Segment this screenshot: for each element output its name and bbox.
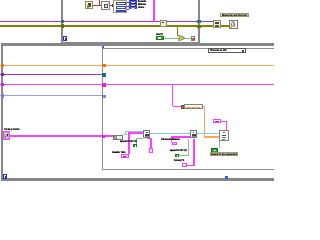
wire magenta vertical (top) — [153, 0, 155, 22]
while loop (outer) border bottom — [1, 178, 274, 181]
wire green boolean 1 — [136, 138, 143, 139]
wire magenta branch down to format box — [172, 85, 174, 106]
label Channel Names — [161, 138, 180, 141]
icon date-time (top chain) — [101, 1, 110, 10]
while loop (outer) border top — [1, 43, 274, 46]
comment label top right — [220, 13, 249, 17]
label Hours — [138, 6, 144, 9]
case selector label — [208, 48, 246, 53]
element name field (orange text) — [184, 104, 203, 109]
tunnel purple outer-left — [1, 73, 4, 76]
junction dot — [112, 4, 114, 6]
tunnel purple top-right — [197, 20, 200, 23]
indicator Hours — [129, 6, 137, 9]
wire purple VISA (top loop) — [0, 21, 214, 22]
wire teal path segments — [123, 134, 127, 135]
wire magenta cluster from control — [10, 135, 114, 137]
label Minutes — [138, 3, 146, 6]
label Antenna — [174, 159, 184, 162]
label append to file 1 — [120, 140, 137, 143]
cluster control Test Set-up Controls — [3, 131, 10, 139]
unbundle by name node — [113, 135, 123, 140]
wire boolean gate to terminal — [184, 38, 191, 39]
tunnel magenta outer-left — [1, 83, 4, 86]
wire olive error (top loop) — [0, 25, 229, 26]
iteration terminal i (outer loop) — [3, 174, 7, 179]
wire magenta channel names — [171, 136, 172, 141]
vi icon C (write to spreadsheet) — [219, 130, 228, 141]
tunnel orange case-left — [102, 64, 106, 67]
while loop (top) border bottom — [61, 42, 200, 44]
wire green boolean 2 — [179, 155, 189, 156]
wire thick magenta header info — [128, 132, 130, 154]
case structure (inner) border left — [102, 48, 103, 170]
icon property node (mid) — [160, 20, 168, 27]
loop conditional terminal — [191, 36, 195, 41]
tunnel purple case-left — [102, 73, 106, 76]
tunnel lavender outer-left — [1, 94, 4, 97]
tunnel lavender case-left — [102, 95, 106, 98]
string constant Header Info — [121, 154, 129, 158]
wire magenta antenna — [187, 165, 195, 166]
wire magenta small const below icon A — [147, 138, 152, 139]
string constant Antenna — [182, 163, 187, 167]
icon VISA open (top chain) — [85, 1, 93, 9]
tunnel orange outer-left — [1, 64, 4, 67]
while loop (top) border right — [198, 0, 201, 45]
tunnel olive top-right — [197, 25, 200, 28]
wire maroon vertical — [99, 0, 100, 6]
case structure (inner) border top — [102, 48, 274, 49]
boolean constant T 2 — [175, 154, 179, 158]
comment label bottom — [210, 152, 238, 157]
wire purple (outer loop) — [0, 74, 103, 75]
tunnel magenta case-left — [102, 83, 106, 86]
while loop (top) border left — [61, 0, 63, 45]
string constant Channel Names — [172, 142, 178, 146]
tunnel magenta cluster case-left — [102, 135, 106, 138]
wire olive branch to or gate — [177, 26, 178, 36]
iteration terminal i (top loop) — [63, 36, 67, 41]
wire blue stubs — [126, 1, 129, 4]
wire magenta main (outer loop) — [0, 84, 274, 86]
vi icon B (write file header) — [190, 130, 198, 139]
or gate — [178, 35, 185, 41]
icon close VISA (right of loop) — [213, 20, 221, 28]
wire magenta %s const — [220, 121, 226, 122]
indicator Minutes — [129, 3, 137, 6]
while loop (outer) border left — [1, 43, 3, 181]
icon wait until next ms multiple — [229, 20, 238, 29]
string constant %s format — [213, 119, 220, 123]
boolean constant T 1 — [133, 144, 136, 148]
tunnel olive top-left — [61, 24, 64, 27]
boolean constant 3 (transpose) — [211, 148, 218, 153]
wire boolean stop to gate — [164, 38, 179, 39]
label stop (F) — [156, 33, 163, 36]
label Seconds — [138, 0, 146, 2]
cluster constant (3 fields) — [113, 0, 127, 13]
case structure (inner) border bottom — [102, 169, 274, 170]
label Test Set-up Controls — [4, 128, 20, 131]
case corner tick — [102, 46, 104, 48]
wire green boolean 3 — [219, 141, 220, 148]
label append to file 2 — [170, 149, 187, 152]
unbundle sample rate yellow square — [181, 105, 185, 109]
wire lavender (outer loop) — [0, 95, 103, 96]
indicator Seconds — [129, 0, 137, 3]
wire orange from format box down to write node — [203, 106, 205, 108]
vi icon A (open/create file) — [143, 130, 150, 138]
label Header Info — [112, 151, 126, 154]
string constant small (below icon A) — [149, 148, 154, 153]
wire maroon timestamp — [92, 5, 114, 6]
wire orange (outer loop) — [0, 65, 274, 67]
tunnel purple top-left — [61, 20, 64, 23]
boolean constant stop — [156, 36, 164, 40]
tunnel blue bottom border — [225, 176, 229, 179]
